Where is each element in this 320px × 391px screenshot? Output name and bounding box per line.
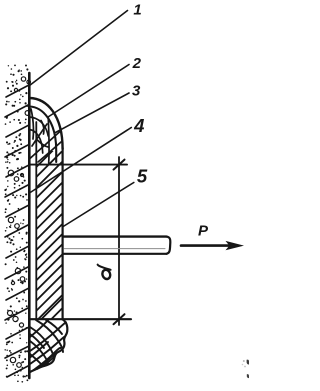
svg-text:3: 3	[132, 82, 141, 99]
dimension label d (drawn glyph, rotated)	[98, 265, 112, 281]
dome: outer curve of mortar cap	[30, 98, 63, 149]
dome: inner curve	[30, 107, 57, 163]
leader line 3	[56, 93, 130, 133]
svg-text:P: P	[198, 222, 209, 239]
svg-text:4: 4	[133, 115, 144, 136]
bottom extension line	[29, 318, 131, 320]
plug strip right edge	[61, 148, 63, 320]
wall texture hatch lines	[5, 86, 28, 378]
leader line 5	[63, 183, 134, 227]
top extension line	[29, 164, 127, 166]
rod end cap	[167, 237, 171, 254]
dimension line d	[118, 157, 120, 325]
force arrow head	[226, 241, 245, 250]
leader line 1	[30, 11, 127, 86]
force arrow shaft	[181, 244, 236, 247]
svg-text:1: 1	[133, 2, 141, 19]
plug strip hatch	[36, 141, 62, 321]
rod bottom edge	[63, 253, 167, 255]
wall face line	[28, 73, 31, 378]
plug strip left edge	[35, 122, 37, 320]
svg-text:2: 2	[132, 55, 142, 72]
wall texture stones (small circles)	[8, 77, 31, 368]
bottom mortar blob outline	[29, 320, 67, 373]
wall texture dots	[4, 65, 28, 383]
bottom mortar mesh	[30, 320, 66, 371]
scan smudge bottom right (clipped print from page edge)	[242, 360, 249, 378]
rod faint inner contour	[64, 248, 165, 250]
leader line 2	[48, 65, 129, 118]
dome: mesh arcs	[30, 109, 62, 163]
leader line 4	[30, 128, 131, 193]
svg-text:5: 5	[137, 166, 148, 187]
dimension tick top	[114, 160, 125, 170]
rod (pin) top edge	[63, 235, 167, 237]
dimension tick bottom	[114, 314, 125, 324]
